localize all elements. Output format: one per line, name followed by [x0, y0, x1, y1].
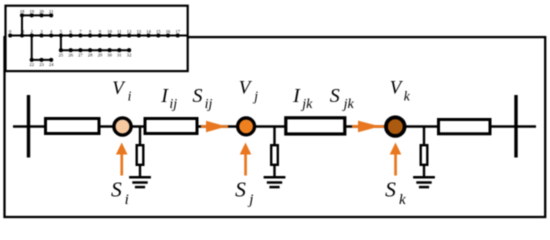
- svg-text:27: 27: [78, 53, 83, 58]
- svg-text:31: 31: [117, 53, 122, 58]
- svg-text:19: 19: [29, 9, 34, 14]
- svg-text:16: 16: [166, 29, 171, 34]
- svg-text:S: S: [193, 85, 203, 107]
- svg-text:k: k: [399, 192, 406, 208]
- svg-text:i: i: [125, 192, 129, 208]
- svg-text:S: S: [111, 178, 122, 202]
- svg-text:17: 17: [175, 29, 180, 34]
- svg-text:ij: ij: [205, 97, 213, 112]
- svg-text:S: S: [235, 178, 246, 202]
- svg-text:21: 21: [49, 9, 54, 14]
- svg-text:11: 11: [117, 29, 122, 34]
- svg-text:24: 24: [49, 62, 54, 67]
- svg-text:S: S: [330, 85, 340, 107]
- svg-text:15: 15: [156, 29, 161, 34]
- svg-text:25: 25: [59, 53, 64, 58]
- svg-text:jk: jk: [300, 97, 313, 112]
- svg-text:13: 13: [137, 29, 142, 34]
- svg-text:30: 30: [107, 53, 112, 58]
- svg-text:22: 22: [29, 62, 34, 67]
- svg-text:jk: jk: [342, 97, 355, 112]
- svg-text:23: 23: [39, 62, 44, 67]
- svg-text:20: 20: [39, 9, 44, 14]
- svg-text:28: 28: [88, 53, 93, 58]
- svg-text:32: 32: [127, 53, 132, 58]
- svg-text:14: 14: [146, 29, 151, 34]
- svg-text:12: 12: [127, 29, 132, 34]
- svg-text:26: 26: [68, 53, 73, 58]
- svg-text:10: 10: [107, 29, 112, 34]
- svg-text:I: I: [292, 85, 301, 107]
- svg-text:18: 18: [20, 9, 25, 14]
- svg-text:29: 29: [98, 53, 103, 58]
- svg-text:k: k: [404, 88, 411, 103]
- svg-text:S: S: [385, 178, 396, 202]
- svg-text:ij: ij: [169, 97, 177, 112]
- svg-text:I: I: [160, 85, 169, 107]
- svg-text:i: i: [128, 89, 132, 104]
